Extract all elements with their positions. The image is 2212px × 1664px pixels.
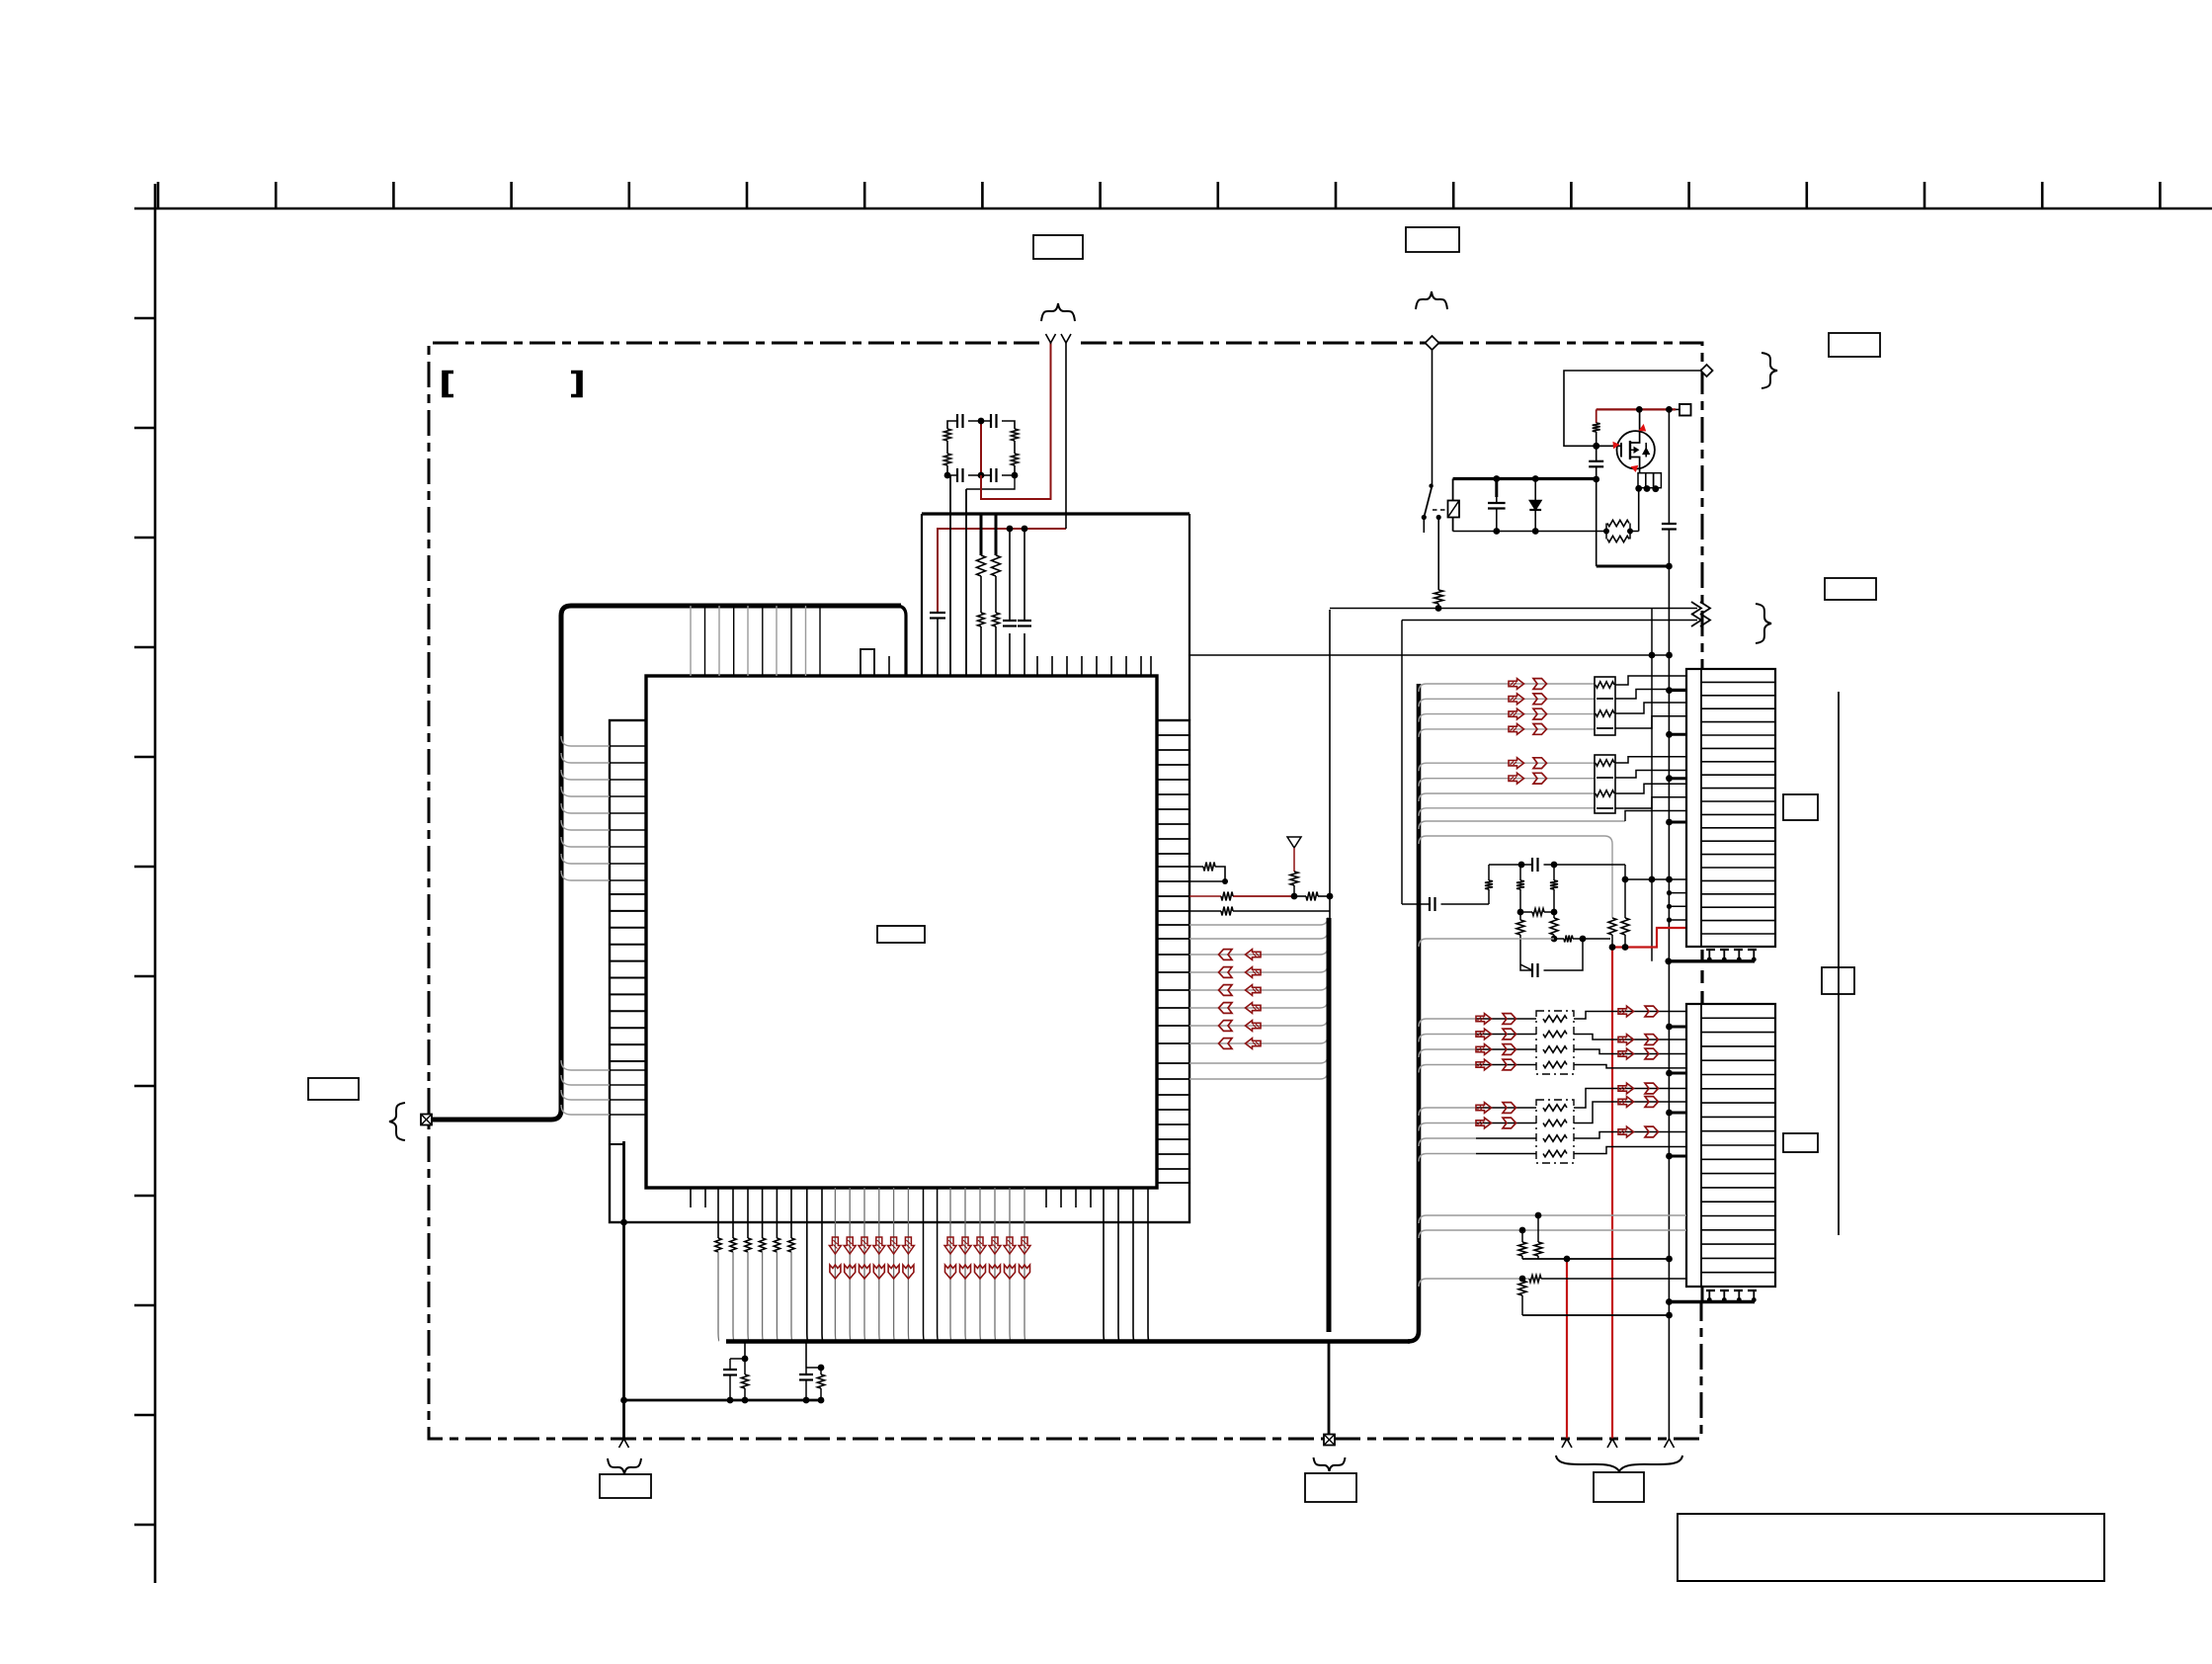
CN2 gnd stubs [1666, 1024, 1686, 1160]
resnet RN2 [1595, 755, 1615, 813]
label box right2 [1825, 578, 1876, 600]
red net to CN1 [1612, 928, 1686, 948]
switch sense col [1436, 515, 1441, 590]
bus branch wires to IC top pins [691, 606, 820, 676]
board outline dash-dot box [429, 343, 1702, 1439]
resistor R (xtal right upper) [1012, 429, 1019, 441]
IC U1 label box [877, 926, 925, 943]
arrows group1 [1509, 679, 1547, 735]
RN box1 resistors [1543, 1016, 1567, 1068]
bottom gray cols cluster1 [835, 1188, 909, 1341]
label box right CN2 [1783, 1133, 1818, 1152]
capacitor C (1615) [1589, 461, 1603, 467]
resistor R (1294h) [1529, 1276, 1541, 1283]
resistor R (1539d) [1516, 920, 1524, 935]
crystal drive wires [950, 475, 966, 676]
decoupling box outline [922, 514, 1189, 720]
label box near 1345 [1305, 1473, 1356, 1502]
connector CN2 [1686, 1004, 1775, 1287]
gray row 1230 [1419, 1212, 1686, 1223]
IC top pin-1 index box [860, 649, 874, 676]
signal line B to CN [1402, 620, 1697, 622]
gate node col x1615 [1593, 409, 1599, 482]
down chevrons cluster1 [830, 1265, 914, 1279]
pullup loop R [1189, 867, 1228, 884]
resistor R (1541) [1518, 1230, 1526, 1259]
RN box2 resistors [1543, 1105, 1567, 1157]
bottom resistor pins [715, 1188, 794, 1341]
under-IC group A [730, 1341, 748, 1400]
capacitor C (xtal top-right) [991, 414, 997, 428]
arrowhead B [1691, 614, 1710, 626]
ruler top line [134, 182, 2212, 208]
resistor R (1583h) [1564, 936, 1573, 943]
capacitor C (xtal bot-left) [957, 468, 963, 482]
signal line A to CN [1330, 605, 1697, 612]
arrows group2 [1509, 758, 1547, 784]
resistor R (groupB) [817, 1374, 824, 1388]
gray line 1092 [1189, 1071, 1328, 1079]
bus exit terminal 2 [1324, 1435, 1335, 1446]
red net exit mark [1607, 1439, 1617, 1448]
power loop bottom [1597, 479, 1673, 569]
label box bottom right [1594, 1472, 1644, 1502]
power col exit mark [1665, 1439, 1675, 1448]
relay top bus [1453, 479, 1597, 532]
bottom mid black cols [924, 1188, 939, 1341]
vertical 1672 [1651, 609, 1653, 961]
row 846 gray [1419, 836, 1612, 918]
resistor R (877) [1203, 863, 1215, 872]
arrows cn2 g1 [1476, 1014, 1516, 1070]
MOSFET pin marks red [1613, 425, 1646, 471]
header entry Y marks [1046, 334, 1072, 343]
VCC square pad [1679, 404, 1691, 416]
bus entry terminal (box-X) [421, 1115, 432, 1125]
line y663 [1189, 652, 1673, 659]
capacitor C (groupB) [799, 1374, 813, 1380]
IC bottom pin stubs [691, 1188, 1091, 1207]
capacitor C1 [930, 613, 945, 619]
staircase wires to CN1 [1615, 676, 1686, 821]
brace left terminal [389, 1103, 405, 1140]
resistor R (1573u) [1550, 880, 1558, 889]
row 890 [1625, 876, 1686, 883]
RC cluster wires [1402, 621, 1625, 971]
resistor R (xtal right lower) [1012, 454, 1019, 465]
board name bracket right [571, 373, 581, 396]
bus rows cn2 g2 [1419, 1108, 1536, 1162]
arrows cn2 g2 [1476, 1103, 1516, 1128]
parallel R bracket [1603, 524, 1639, 540]
brace right2 [1756, 604, 1771, 643]
down arrows cluster1 [829, 1237, 914, 1254]
bus rows cn2 g1 [1419, 1019, 1536, 1073]
IC left pin stubs [610, 746, 646, 1115]
label box right1 [1829, 333, 1880, 357]
cap col x1514 [1493, 475, 1500, 535]
resistor R (1456) [1434, 590, 1443, 604]
gray row 1294 [1419, 1276, 1686, 1287]
junction dots crystal [944, 418, 1019, 479]
IC top pin stubs [889, 656, 1151, 676]
capacitor C (xtal bot-right) [991, 468, 997, 482]
resistor R (xtal left lower) [944, 454, 951, 465]
wide brace bottom right [1556, 1456, 1682, 1471]
resistor R (922) [1221, 907, 1233, 916]
bus rows group2 [1419, 763, 1595, 787]
switch S [1422, 484, 1434, 534]
rail 1274 [1522, 1256, 1673, 1263]
connector CN1 [1686, 669, 1775, 947]
arrows at CN2 [1618, 1006, 1659, 1137]
red net2 exit mark [1562, 1439, 1572, 1448]
IC pin ring [610, 720, 1189, 1222]
capacitor C (groupA) [723, 1370, 737, 1375]
CN1 gnd stubs [1666, 687, 1686, 922]
CN2 shield comb [1666, 1290, 1761, 1305]
bus 1436 vertical [1417, 684, 1422, 1331]
IC right pin stubs [1157, 735, 1189, 1183]
brace bottom terminal2 [1314, 1457, 1346, 1471]
dashed RN box2 [1536, 1100, 1574, 1163]
resistor R (1552h) [1532, 909, 1544, 916]
resistor R (907a) [1221, 892, 1233, 901]
gate feed wire [1564, 371, 1701, 450]
wire col via cap C1 [938, 529, 1066, 676]
CN1 shield comb [1665, 950, 1761, 1004]
capacitor C (1037) [1018, 621, 1031, 626]
resnet RN1 [1595, 677, 1615, 735]
down arrows cluster2 [944, 1237, 1030, 1254]
gray lines arrows rows [1189, 947, 1328, 1043]
MOSFET Q1 drain lead [1630, 409, 1640, 443]
resistor R (1507) [1485, 880, 1493, 889]
col 1632 R [1608, 918, 1616, 948]
col 631 exit mark [619, 1439, 629, 1448]
red wire crystal to header [981, 343, 1051, 499]
MOSFET Q1 circle [1617, 431, 1655, 468]
right bus vertical [1329, 610, 1330, 1332]
capacitor C (1552-875) [1532, 858, 1538, 872]
row 831 [1419, 821, 1625, 829]
IC U1 body [646, 676, 1157, 1188]
gate exit diamond [1701, 365, 1713, 376]
crystal network loop [947, 421, 1015, 489]
relay coil K [1448, 501, 1460, 518]
bottom gray cols cluster2 [950, 1188, 1025, 1341]
sense wire down [1437, 604, 1439, 609]
gray line 950 [1189, 931, 1328, 939]
bus branch wires to IC left pins [561, 736, 610, 1115]
capacitor C (1514) [1488, 503, 1506, 509]
resistor R (993 lower) [978, 613, 985, 626]
MOSFET Q1 body arrow [1630, 443, 1649, 458]
rail 1331 [1522, 1312, 1673, 1319]
resistor R (pair top) [1607, 520, 1629, 526]
label box mid CN [1822, 967, 1854, 994]
line 922 [1189, 910, 1330, 912]
label box right CN1 [1783, 794, 1818, 820]
dashed RN box1 [1536, 1011, 1574, 1074]
capacitor C (1453) [1430, 897, 1435, 911]
red VCC rail [1597, 406, 1679, 413]
divider col R (x993) [980, 514, 983, 676]
under-IC group B [806, 1341, 824, 1400]
diode D1 [1529, 475, 1541, 535]
down chevrons cluster2 [945, 1265, 1030, 1279]
capacitor C (1689) [1662, 524, 1677, 530]
col 1645 R [1621, 865, 1629, 948]
resistor R (1615) [1593, 423, 1600, 446]
red net vertical [1609, 944, 1629, 1439]
power brace top [1416, 291, 1447, 309]
label box left mid [308, 1078, 359, 1100]
MOSFET Q1 channel [1629, 441, 1631, 459]
ruler left line [134, 184, 155, 1583]
staircase wires to CN2 [1574, 1012, 1686, 1154]
resistor R (1008 lower) [993, 613, 1000, 626]
bottom black cols [807, 1188, 823, 1341]
vertical ref line right [1838, 692, 1840, 1235]
header brace [1041, 303, 1075, 321]
label box top2 [1406, 227, 1459, 252]
ant line to bus [1318, 893, 1333, 900]
gray row 1245 [1419, 1227, 1686, 1238]
resistor R (pair bottom) [1607, 536, 1629, 541]
page ref box bottom-right [1678, 1514, 2104, 1581]
resistor R (xtal left upper) [944, 429, 951, 441]
gray line 1076 [1189, 1055, 1328, 1063]
exit brace bottom-left [608, 1458, 641, 1474]
red net2 vertical [1564, 1256, 1571, 1439]
left data bus (thick) [432, 606, 906, 1120]
bus rows group1 [1419, 684, 1595, 737]
label box top1 [1033, 235, 1083, 259]
resistor R (907b) [1306, 892, 1318, 901]
choke to R pair [1638, 488, 1640, 532]
MOSFET Q1 source lead [1630, 458, 1640, 473]
junction dots red rail [1007, 526, 1028, 533]
gray row 950 [1419, 939, 1554, 947]
right bus lower segment [1328, 1342, 1331, 1435]
power entry diamond arrow [1426, 336, 1439, 486]
cap col (x1037) [1024, 529, 1025, 676]
resistor R (1573d) [1550, 918, 1558, 935]
divider col R (x1008) [995, 514, 998, 676]
resistor R (ant) [1290, 872, 1298, 885]
resistor R (1008 upper) [992, 555, 1001, 576]
bus exit arrows left [1219, 950, 1262, 1049]
crystal X1 red center wire [980, 419, 982, 475]
label box bottom-left [600, 1474, 651, 1498]
bus rows group2b [1419, 793, 1595, 816]
ground rail under IC [623, 1397, 824, 1404]
choke L1 [1635, 473, 1661, 492]
resistor R (1539u) [1516, 880, 1524, 889]
col 631 thick [610, 1141, 627, 1439]
resistor R (groupA) [741, 1374, 748, 1388]
black wire header col [1065, 343, 1067, 529]
capacitor C (1022) [1003, 621, 1017, 626]
gray line 936 [1189, 917, 1328, 925]
relay bottom rail [1453, 531, 1606, 533]
bottom black cols right [1104, 1188, 1149, 1341]
power right col [1668, 409, 1670, 1439]
switch dashed link [1433, 509, 1447, 511]
resistor R (993 upper) [977, 555, 986, 576]
MOSFET Q1 gate bar [1617, 443, 1621, 458]
capacitor C (xtal top-left) [957, 414, 963, 428]
arrowhead A [1691, 602, 1710, 615]
bottom bus thick [726, 1331, 1419, 1342]
brace right1 [1761, 353, 1777, 388]
capacitor C (1552-982) [1532, 963, 1538, 977]
resistor R (1541d) [1518, 1279, 1526, 1315]
antenna stub [1287, 837, 1301, 896]
resistor R (1557) [1534, 1215, 1542, 1259]
board name bracket left [444, 373, 453, 396]
col 631 top hook [610, 1143, 624, 1145]
ant line red [1189, 893, 1306, 900]
cap col (x1022) [1009, 529, 1011, 676]
